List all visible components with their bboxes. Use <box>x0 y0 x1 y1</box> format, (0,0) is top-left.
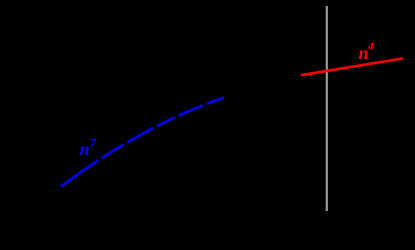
svg-text:4: 4 <box>367 39 374 53</box>
svg-text:n: n <box>359 43 369 63</box>
svg-text:n: n <box>80 139 90 159</box>
svg-text:7: 7 <box>90 136 97 151</box>
